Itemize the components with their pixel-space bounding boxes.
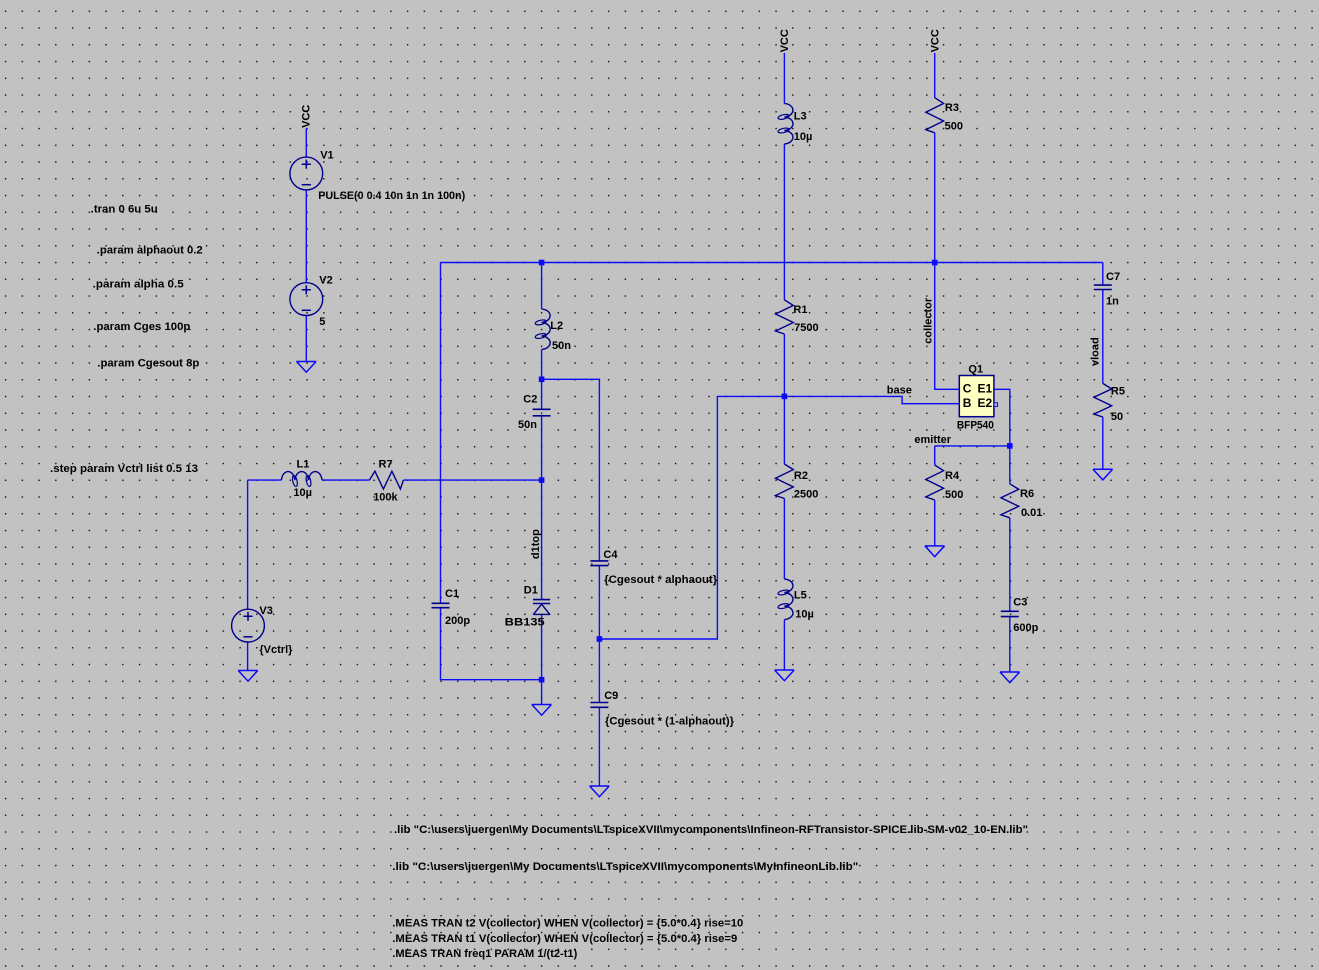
wire	[598, 566, 600, 639]
directive .tran	[91, 204, 158, 216]
svg-text:C: C	[963, 382, 972, 396]
directive .meas t1	[392, 933, 737, 945]
transistor Q1	[959, 364, 994, 417]
wire	[599, 396, 959, 639]
svg-text:Q1: Q1	[968, 364, 983, 376]
svg-text:200p: 200p	[445, 615, 470, 627]
Q1 pin B	[963, 396, 972, 410]
svg-text:50n: 50n	[552, 340, 571, 352]
directive .step	[50, 463, 198, 475]
resistor R1	[776, 300, 808, 334]
directive .param alphaout	[97, 244, 203, 256]
svg-text:VCC: VCC	[929, 29, 941, 52]
wire	[934, 133, 936, 263]
L3 value label	[794, 131, 813, 143]
wire	[541, 350, 543, 410]
svg-text:D1: D1	[524, 585, 538, 597]
R6 value label	[1021, 507, 1042, 519]
resistor R3	[926, 98, 959, 133]
Q1 pin C	[963, 382, 972, 396]
svg-text:5: 5	[319, 316, 325, 328]
ground	[238, 671, 258, 682]
V2 value label	[319, 316, 325, 328]
voltage source V2	[290, 274, 333, 315]
resistor R7	[369, 459, 403, 490]
svg-text:R2: R2	[794, 470, 808, 482]
junction	[539, 677, 545, 683]
svg-text:.param Cges 100p: .param Cges 100p	[93, 321, 190, 333]
svg-text:L3: L3	[794, 111, 807, 123]
svg-text:E1: E1	[978, 382, 993, 396]
directive .meas freq1	[392, 948, 577, 960]
wire	[322, 479, 369, 481]
svg-text:L5: L5	[794, 589, 807, 601]
svg-text:PULSE(0 0.4 10n 1n 1n 100n): PULSE(0 0.4 10n 1n 1n 100n)	[318, 190, 465, 202]
svg-text:.lib "C:\users\juergen\My Docu: .lib "C:\users\juergen\My Documents\LTsp…	[394, 824, 1028, 836]
svg-text:R4: R4	[945, 470, 960, 482]
wire	[440, 263, 442, 604]
wire	[305, 316, 307, 362]
svg-text:VCC: VCC	[779, 29, 791, 52]
wire	[441, 608, 542, 680]
wire	[783, 144, 785, 263]
R2 value label	[794, 488, 818, 500]
svg-text:.param alphaout 0.2: .param alphaout 0.2	[97, 244, 203, 256]
svg-text:10µ: 10µ	[293, 487, 312, 499]
svg-text:C9: C9	[604, 690, 618, 702]
svg-text:C2: C2	[523, 394, 537, 406]
wire	[1102, 417, 1104, 469]
Q1 value label BFP540	[957, 420, 994, 432]
R1 value label	[794, 322, 818, 334]
directive .lib 1	[394, 824, 1028, 836]
V1 value label	[318, 190, 465, 202]
directive .param alpha	[93, 278, 184, 290]
wire	[541, 263, 543, 309]
L2 value label	[552, 340, 571, 352]
capacitor C4	[590, 549, 618, 566]
svg-text:R3: R3	[945, 102, 959, 114]
junction	[539, 477, 545, 483]
svg-text:L1: L1	[297, 459, 310, 471]
ground	[925, 546, 945, 557]
wire	[783, 499, 785, 580]
capacitor C2	[523, 394, 550, 416]
svg-text:R1: R1	[793, 304, 807, 316]
resistor R5	[1094, 383, 1125, 417]
wire	[541, 615, 543, 705]
C3 value label	[1013, 622, 1038, 634]
svg-text:100k: 100k	[373, 491, 398, 503]
wire	[783, 53, 785, 104]
L1 value label	[293, 487, 312, 499]
R4 value label	[945, 489, 963, 501]
svg-text:C1: C1	[445, 588, 459, 600]
svg-text:R7: R7	[379, 459, 393, 471]
wire	[542, 379, 600, 560]
wire	[934, 53, 936, 98]
inductor L1	[281, 459, 322, 487]
junction	[1007, 443, 1013, 449]
svg-text:{Cgesout * (1-alphaout)}: {Cgesout * (1-alphaout)}	[605, 716, 735, 728]
svg-text:{Vctrl}: {Vctrl}	[259, 644, 293, 656]
svg-text:R6: R6	[1020, 488, 1034, 500]
directive .lib 2	[392, 861, 858, 873]
wire	[1009, 518, 1011, 611]
svg-text:B: B	[963, 396, 972, 410]
svg-text:{Cgesout * alphaout}: {Cgesout * alphaout}	[604, 574, 718, 586]
svg-text:emitter: emitter	[914, 434, 951, 446]
R7 value label	[373, 491, 398, 503]
wire	[247, 642, 249, 671]
directive .param Cges	[93, 321, 190, 333]
Q1 pin E2 (unconnected)	[978, 396, 998, 410]
svg-text:.param alpha 0.5: .param alpha 0.5	[93, 278, 184, 290]
junction	[539, 260, 545, 266]
svg-text:.param Cgesout 8p: .param Cgesout 8p	[97, 358, 199, 370]
svg-text:0.01: 0.01	[1021, 507, 1042, 519]
inductor L2	[535, 309, 563, 350]
power flag VCC	[929, 29, 941, 52]
wire	[783, 620, 785, 670]
R5 value label	[1111, 411, 1123, 423]
wire	[934, 500, 936, 546]
resistor R6	[1001, 484, 1034, 518]
svg-text:L2: L2	[550, 320, 563, 332]
svg-text:V1: V1	[320, 149, 333, 161]
wire	[935, 263, 960, 390]
node d1top	[530, 529, 542, 559]
power flag VCC	[301, 105, 313, 128]
junction	[932, 260, 938, 266]
Q1 pin E1	[978, 382, 993, 396]
svg-text:1n: 1n	[1106, 296, 1119, 308]
wire	[598, 639, 600, 702]
voltage source V1	[290, 149, 334, 190]
junction	[782, 394, 788, 400]
svg-text:V3: V3	[259, 605, 272, 617]
inductor L5	[778, 579, 807, 620]
svg-text:V2: V2	[319, 274, 332, 286]
svg-text:R5: R5	[1111, 385, 1125, 397]
svg-text:600p: 600p	[1013, 622, 1038, 634]
L5 value label	[795, 609, 814, 621]
capacitor C9	[590, 690, 618, 707]
svg-text:BB135: BB135	[505, 617, 545, 629]
wire	[403, 479, 541, 481]
wire	[541, 416, 543, 599]
junction	[539, 377, 545, 383]
C9 value label	[605, 716, 735, 728]
wire	[934, 446, 936, 465]
D1 value label	[505, 617, 545, 629]
C7 value label	[1106, 296, 1119, 308]
svg-text:.MEAS TRAN freq1 PARAM 1/(t2-t: .MEAS TRAN freq1 PARAM 1/(t2-t1)	[392, 948, 577, 960]
svg-text:vload: vload	[1090, 337, 1102, 366]
svg-text:10µ: 10µ	[795, 609, 814, 621]
svg-text:2500: 2500	[794, 488, 818, 500]
wire	[248, 479, 282, 481]
power flag VCC	[779, 29, 791, 52]
wire	[247, 480, 249, 609]
wire	[783, 396, 785, 464]
svg-text:500: 500	[945, 120, 963, 132]
svg-text:.step param Vctrl list 0.5 13: .step param Vctrl list 0.5 13	[50, 463, 198, 475]
svg-text:base: base	[887, 384, 912, 396]
svg-text:E2: E2	[978, 396, 993, 410]
C2 value label	[518, 419, 537, 431]
svg-text:VCC: VCC	[301, 105, 313, 128]
svg-text:50: 50	[1111, 411, 1123, 423]
capacitor C1	[432, 588, 460, 608]
node collector	[923, 297, 935, 344]
svg-text:.MEAS TRAN t2 V(collector) WHE: .MEAS TRAN t2 V(collector) WHEN V(collec…	[392, 918, 743, 930]
wire	[1009, 617, 1011, 672]
ground	[775, 670, 795, 681]
wire	[305, 190, 307, 283]
wire	[994, 389, 1010, 484]
resistor R2	[776, 464, 808, 499]
svg-text:.lib "C:\users\juergen\My Docu: .lib "C:\users\juergen\My Documents\LTsp…	[392, 861, 858, 873]
svg-text:C4: C4	[603, 549, 618, 561]
wire	[305, 128, 307, 157]
wire	[441, 262, 1103, 264]
ground	[1093, 469, 1113, 480]
svg-text:500: 500	[945, 489, 963, 501]
inductor L3	[778, 103, 807, 144]
svg-text:C3: C3	[1013, 596, 1027, 608]
capacitor C3	[1001, 596, 1028, 616]
svg-text:BFP540: BFP540	[957, 420, 994, 432]
node emitter	[914, 434, 951, 446]
wire	[598, 708, 600, 787]
svg-text:d1top: d1top	[530, 529, 542, 559]
C4 value label	[604, 574, 718, 586]
wire	[935, 445, 1010, 447]
R3 value label	[945, 120, 963, 132]
C1 value label	[445, 615, 470, 627]
svg-text:C7: C7	[1106, 271, 1120, 283]
ground	[532, 705, 552, 716]
voltage source V3	[232, 605, 273, 642]
wire	[1102, 290, 1104, 384]
node base	[887, 384, 912, 396]
svg-text:.MEAS TRAN t1 V(collector) WHE: .MEAS TRAN t1 V(collector) WHEN V(collec…	[392, 933, 737, 945]
wire	[783, 263, 785, 300]
wire	[1102, 263, 1104, 285]
capacitor C7	[1094, 271, 1120, 290]
svg-text:7500: 7500	[794, 322, 818, 334]
ground	[1000, 672, 1020, 683]
ground	[590, 786, 610, 797]
V3 value label	[259, 644, 293, 656]
resistor R4	[926, 465, 960, 500]
svg-text:.tran 0 6u 5u: .tran 0 6u 5u	[91, 204, 158, 216]
diode D1	[524, 585, 551, 615]
ground	[297, 362, 317, 373]
wire	[783, 334, 785, 396]
node vload	[1090, 337, 1102, 366]
svg-text:50n: 50n	[518, 419, 537, 431]
directive .meas t2	[392, 918, 743, 930]
svg-text:collector: collector	[923, 297, 935, 344]
directive .param Cgesout	[97, 358, 199, 370]
junction	[597, 636, 603, 642]
svg-text:10µ: 10µ	[794, 131, 813, 143]
